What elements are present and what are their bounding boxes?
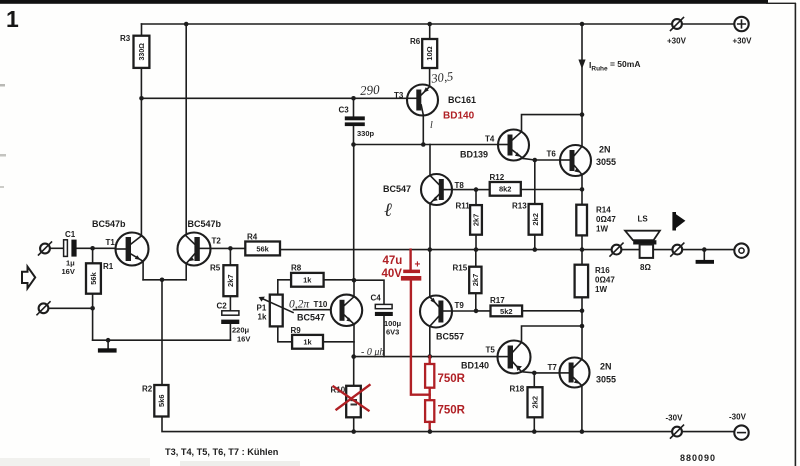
wire T9 collector lead — [429, 326, 431, 356]
wire R13 bottom lead — [534, 235, 536, 250]
wire C3 node down to node A — [353, 145, 355, 281]
node T9 collector / 750R top — [428, 354, 433, 359]
wire R15 bottom lead — [475, 293, 477, 311]
wire +30V top rail — [142, 23, 735, 25]
svg-text:330Ω: 330Ω — [139, 43, 146, 61]
svg-text:3055: 3055 — [596, 157, 616, 167]
svg-text:C4: C4 — [371, 294, 382, 303]
wire R17 right lead — [522, 310, 582, 312]
svg-text:2N: 2N — [599, 145, 611, 155]
ground symbol (output) — [696, 260, 714, 264]
wire C1 to T1 base — [77, 247, 116, 249]
connector input upper — [39, 242, 52, 255]
red resistor 750R upper — [425, 357, 466, 388]
svg-text:2k2: 2k2 — [531, 213, 540, 226]
transistor T3 (BC161/BD140) — [394, 85, 476, 116]
svg-text:220μ: 220μ — [232, 326, 250, 335]
resistor R15 — [453, 264, 482, 294]
svg-text:290: 290 — [360, 82, 381, 98]
red capacitor 47u 40V — [382, 250, 430, 395]
capacitor C3 — [339, 106, 375, 139]
svg-text:R5: R5 — [210, 264, 221, 273]
wire T6 base lead — [535, 159, 560, 161]
svg-text:330p: 330p — [357, 129, 375, 138]
red X over R10 — [334, 385, 370, 411]
resistor R6 — [410, 37, 437, 68]
svg-text:R17: R17 — [490, 296, 505, 305]
resistor R10 (crossed out) — [331, 386, 361, 418]
resistor R11 — [456, 202, 482, 235]
wire T5 collector to 582 vertical — [522, 326, 583, 342]
svg-text:880090: 880090 — [680, 453, 716, 463]
capacitor C4 — [371, 294, 402, 337]
svg-text:R1: R1 — [103, 262, 114, 271]
wire R13 top lead — [534, 160, 536, 204]
wire R16 bottom to T7 collector — [581, 297, 583, 359]
resistor R16 — [575, 265, 616, 298]
svg-text:30,5: 30,5 — [430, 69, 454, 86]
wire T3 emitter line y144 to T4 base — [354, 144, 499, 146]
terminal +30V — [733, 17, 753, 46]
wire C4 bottom lead — [383, 316, 385, 357]
wire R1 bottom lead to ground line — [92, 294, 94, 341]
wire R5 bottom to C2 — [229, 296, 231, 311]
input arrow — [22, 267, 35, 289]
wire C3 top lead — [353, 98, 355, 116]
resistor R12 — [490, 173, 521, 196]
node B junction — [351, 354, 356, 359]
node diff pair tail — [160, 278, 165, 283]
svg-text:1k: 1k — [258, 313, 267, 322]
svg-text:+: + — [415, 260, 421, 271]
wire R15 top lead — [475, 250, 477, 267]
node A junction — [352, 278, 357, 283]
red resistor 750R lower — [425, 388, 466, 432]
svg-text:5k6: 5k6 — [157, 394, 166, 407]
transistor T1 (BC547b) — [92, 219, 149, 266]
resistor R5 — [210, 264, 237, 297]
wire T5 emitter link — [522, 372, 535, 373]
svg-text:47u: 47u — [383, 255, 403, 267]
svg-text:BC547: BC547 — [297, 313, 325, 323]
svg-text:BC547b: BC547b — [92, 219, 126, 229]
svg-text:LS: LS — [638, 215, 649, 224]
wire R18 bottom lead — [533, 417, 535, 431]
resistor R4 — [245, 233, 280, 256]
connector output right — [671, 243, 684, 256]
wire T2 collector vertical — [185, 24, 187, 235]
svg-text:- 0 μh: - 0 μh — [361, 347, 384, 358]
svg-text:1k: 1k — [303, 338, 312, 347]
node bottom rail / R10 — [351, 429, 356, 434]
node C1/R1/T1 junction — [90, 246, 95, 251]
wire T8 emitter lead to output rail — [429, 204, 431, 250]
wire R12 right lead — [521, 189, 582, 191]
svg-text:T2: T2 — [212, 237, 222, 246]
resistor R14 — [576, 205, 616, 236]
svg-text:ℓ: ℓ — [384, 200, 392, 221]
node top rail / T2 collector — [184, 22, 189, 27]
svg-text:+30V: +30V — [733, 37, 753, 46]
svg-text:6V3: 6V3 — [386, 328, 399, 337]
node output ground tap — [702, 247, 707, 252]
svg-text:C2: C2 — [217, 302, 228, 311]
frame top thin line — [766, 3, 796, 4]
resistor R8 — [291, 264, 324, 287]
svg-text:16V: 16V — [62, 267, 75, 276]
wire T8 base to R11/R12 — [443, 189, 476, 191]
svg-text:T3, T4, T5, T6, T7 : Kühlen: T3, T4, T5, T6, T7 : Kühlen — [165, 447, 279, 457]
ground symbol (input) — [98, 348, 117, 352]
svg-text:R9: R9 — [291, 326, 302, 335]
wire R17 left lead — [476, 310, 491, 312]
node red 750R to bottom rail — [428, 429, 433, 434]
wire common emitter bar — [143, 279, 186, 281]
wire T3 base line y98 — [142, 97, 408, 99]
svg-text:40V: 40V — [382, 268, 403, 280]
svg-text:-30V: -30V — [729, 413, 747, 422]
wire R12 left lead — [476, 189, 490, 191]
svg-text:R12: R12 — [490, 173, 505, 182]
transistor T5 (BD140) — [461, 341, 531, 374]
svg-text:BC557: BC557 — [436, 332, 464, 342]
svg-text:T9: T9 — [455, 301, 465, 310]
wire T7 base lead — [534, 372, 559, 374]
svg-text:l: l — [430, 120, 433, 131]
frame right border — [795, 3, 797, 466]
wire C3 bottom lead — [353, 126, 355, 145]
svg-text:0Ω47: 0Ω47 — [595, 276, 615, 285]
capacitor C1 — [62, 230, 77, 276]
wire R10 top lead — [353, 357, 355, 386]
terminal -30V — [729, 413, 749, 440]
wire node A to C4 — [354, 280, 384, 304]
node T4 collector rail junction — [580, 112, 585, 117]
resistor R17 — [490, 296, 522, 316]
wire T10 base lead — [294, 309, 340, 311]
wire R9 right lead — [323, 341, 354, 343]
wire R9 left lead to P1 bottom — [278, 326, 292, 341]
svg-text:8k2: 8k2 — [499, 185, 512, 194]
svg-text:56k: 56k — [256, 244, 269, 253]
node T3 emitter junction — [421, 142, 426, 147]
node C3 top / base line — [351, 96, 356, 101]
svg-text:2k2: 2k2 — [531, 396, 540, 409]
wire R2 top lead (diff pair tail) — [161, 280, 163, 385]
svg-text:BC547: BC547 — [383, 184, 411, 194]
svg-text:BC547b: BC547b — [188, 219, 222, 229]
svg-text:T5: T5 — [486, 346, 496, 355]
svg-text:R3: R3 — [120, 34, 131, 43]
wire R10 bottom lead — [353, 417, 355, 431]
svg-text:BD140: BD140 — [443, 111, 475, 122]
svg-text:BC161: BC161 — [448, 95, 476, 105]
svg-text:R18: R18 — [510, 385, 525, 394]
wire T9 emitter lead to output rail — [429, 250, 431, 297]
connector input lower — [37, 302, 50, 315]
svg-text:R8: R8 — [291, 264, 302, 273]
wire R5 top lead — [229, 248, 231, 265]
connector output left — [610, 243, 623, 256]
wire R6 top lead — [429, 24, 431, 39]
node T8 base junction — [474, 187, 479, 192]
svg-text:T4: T4 — [485, 135, 495, 144]
svg-text:T3: T3 — [394, 91, 404, 100]
scan smudges (paper artifacts) — [0, 84, 5, 87]
wire T8 collector lead — [429, 145, 431, 176]
svg-text:56k: 56k — [89, 271, 98, 284]
svg-text:R2: R2 — [142, 385, 153, 394]
svg-text:16V: 16V — [237, 335, 250, 344]
svg-text:0,2π: 0,2π — [289, 299, 310, 311]
resistor R1 — [86, 262, 114, 294]
svg-text:R16: R16 — [595, 266, 610, 275]
wire T2 base to R4 — [211, 247, 246, 249]
connector -30V — [666, 414, 684, 439]
wire R8 left lead to P1 top — [278, 280, 291, 295]
svg-text:1W: 1W — [595, 285, 607, 294]
transistor T4 (BD139) — [460, 130, 529, 161]
frame top bar — [0, 0, 768, 4]
node R17 right junction — [580, 308, 585, 313]
node output/R13 — [533, 247, 538, 252]
transistor T10 (BC547) — [297, 295, 362, 326]
svg-text:+30V: +30V — [667, 37, 687, 46]
transistor T9 (BC557) — [420, 296, 464, 342]
wire +30V vertical to T6 — [581, 24, 583, 146]
wire T1 emitter lead — [142, 261, 144, 280]
svg-text:T1: T1 — [106, 238, 116, 247]
svg-text:T8: T8 — [455, 181, 465, 190]
transistor T8 (BC547) — [383, 174, 464, 205]
wire R11 top lead — [475, 190, 477, 206]
svg-text:2k7: 2k7 — [226, 274, 235, 287]
wire R18 top lead — [533, 373, 535, 387]
node bottom rail / R18 — [532, 429, 537, 434]
terminal output O — [734, 243, 748, 257]
wire lower input connector — [49, 307, 93, 309]
svg-text:1: 1 — [6, 6, 19, 32]
wire -30V bottom rail — [162, 417, 735, 432]
node T9 base junction — [474, 309, 479, 314]
wire R3 bottom to T1 collector — [140, 68, 142, 236]
connector +30V — [667, 18, 687, 46]
wire T10 collector lead — [353, 280, 355, 297]
node R12/T6-emitter junction — [580, 187, 585, 192]
svg-text:3055: 3055 — [596, 375, 616, 385]
wire R1 top lead — [92, 248, 94, 263]
wire R6 bottom to T3 collector — [429, 68, 431, 86]
svg-text:2N: 2N — [600, 362, 612, 372]
wire T2 emitter lead — [185, 264, 187, 280]
wire ground stub — [107, 340, 109, 348]
svg-text:R14: R14 — [596, 206, 611, 215]
wire R16 top lead — [581, 250, 583, 265]
wire R8 right lead — [324, 279, 355, 281]
svg-text:-30V: -30V — [666, 414, 684, 423]
svg-text:T6: T6 — [547, 150, 557, 159]
arrow IRuhe current — [578, 60, 585, 70]
wire T4 collector to +30V vertical — [522, 115, 583, 132]
resistor R9 — [291, 326, 324, 349]
svg-text:0Ω47: 0Ω47 — [596, 215, 616, 224]
wire input to C1 — [50, 247, 64, 249]
node T5 emitter junction — [532, 371, 537, 376]
wire T10 emitter lead — [353, 324, 355, 357]
node C3 bottom junction — [351, 142, 356, 147]
wire R14 bottom lead — [581, 235, 583, 249]
svg-text:R13: R13 — [512, 202, 527, 211]
wire output ground stub — [703, 250, 705, 260]
node ground tap — [106, 338, 111, 343]
wire T7 emitter lead — [581, 386, 583, 432]
node output/R11 R15 — [474, 247, 479, 252]
transistor T2 (BC547b) — [178, 219, 222, 266]
svg-text:5k2: 5k2 — [500, 307, 513, 316]
node top rail / +30V vertical — [580, 22, 585, 27]
transistor T7 (2N3055) — [548, 358, 617, 388]
resistor R2 — [142, 385, 169, 417]
node T2 base / R5 — [228, 246, 233, 251]
wire ground line — [93, 339, 231, 341]
loudspeaker LS — [625, 215, 660, 273]
wire R3 top lead — [141, 24, 143, 36]
wire C2 bottom lead — [229, 324, 231, 340]
node T5 collector junction — [580, 324, 585, 329]
transistor T6 (2N3055) — [547, 145, 617, 177]
wire T4 emitter link — [523, 158, 535, 160]
svg-text:C3: C3 — [339, 106, 350, 115]
resistor R13 — [512, 202, 542, 235]
svg-text:1k: 1k — [303, 276, 312, 285]
svg-text:C1: C1 — [65, 230, 76, 239]
svg-text:10Ω: 10Ω — [425, 46, 434, 60]
svg-text:1W: 1W — [596, 225, 608, 234]
svg-text:2k7: 2k7 — [472, 214, 481, 227]
svg-text:T10: T10 — [314, 300, 328, 309]
wire node B line to T5 base — [354, 356, 498, 358]
capacitor C2 — [217, 302, 251, 344]
potentiometer P1 — [257, 295, 294, 327]
node lower input junction — [90, 306, 95, 311]
node output/T8-T9 emitters — [428, 247, 433, 252]
wire output rail — [280, 249, 735, 251]
svg-text:R6: R6 — [410, 37, 421, 46]
resistor R18 — [510, 385, 543, 418]
node output/R14 R16 — [580, 247, 585, 252]
resistor R3 — [120, 34, 149, 68]
svg-text:750R: 750R — [438, 373, 466, 385]
node R3/T3-base junction — [139, 96, 144, 101]
svg-text:R4: R4 — [247, 233, 258, 242]
svg-text:R11: R11 — [456, 202, 471, 211]
svg-text:BD139: BD139 — [460, 150, 488, 160]
svg-text:P1: P1 — [257, 304, 267, 313]
node top rail / R6 — [427, 22, 432, 27]
node bottom rail / T7 emitter — [580, 429, 585, 434]
svg-text:750R: 750R — [438, 405, 466, 417]
sound direction arrow — [672, 212, 685, 231]
wire T9 base lead — [442, 310, 476, 312]
wire T3 bottom lead — [422, 115, 424, 145]
svg-text:T7: T7 — [548, 363, 558, 372]
node T4 emitter junction — [533, 158, 538, 163]
wire R11 bottom lead — [475, 235, 477, 250]
svg-text:BD140: BD140 — [461, 361, 489, 371]
svg-text:2k7: 2k7 — [471, 274, 480, 287]
wire T6 emitter lead — [581, 175, 583, 205]
svg-text:8Ω: 8Ω — [640, 263, 651, 272]
svg-text:R15: R15 — [453, 264, 468, 273]
